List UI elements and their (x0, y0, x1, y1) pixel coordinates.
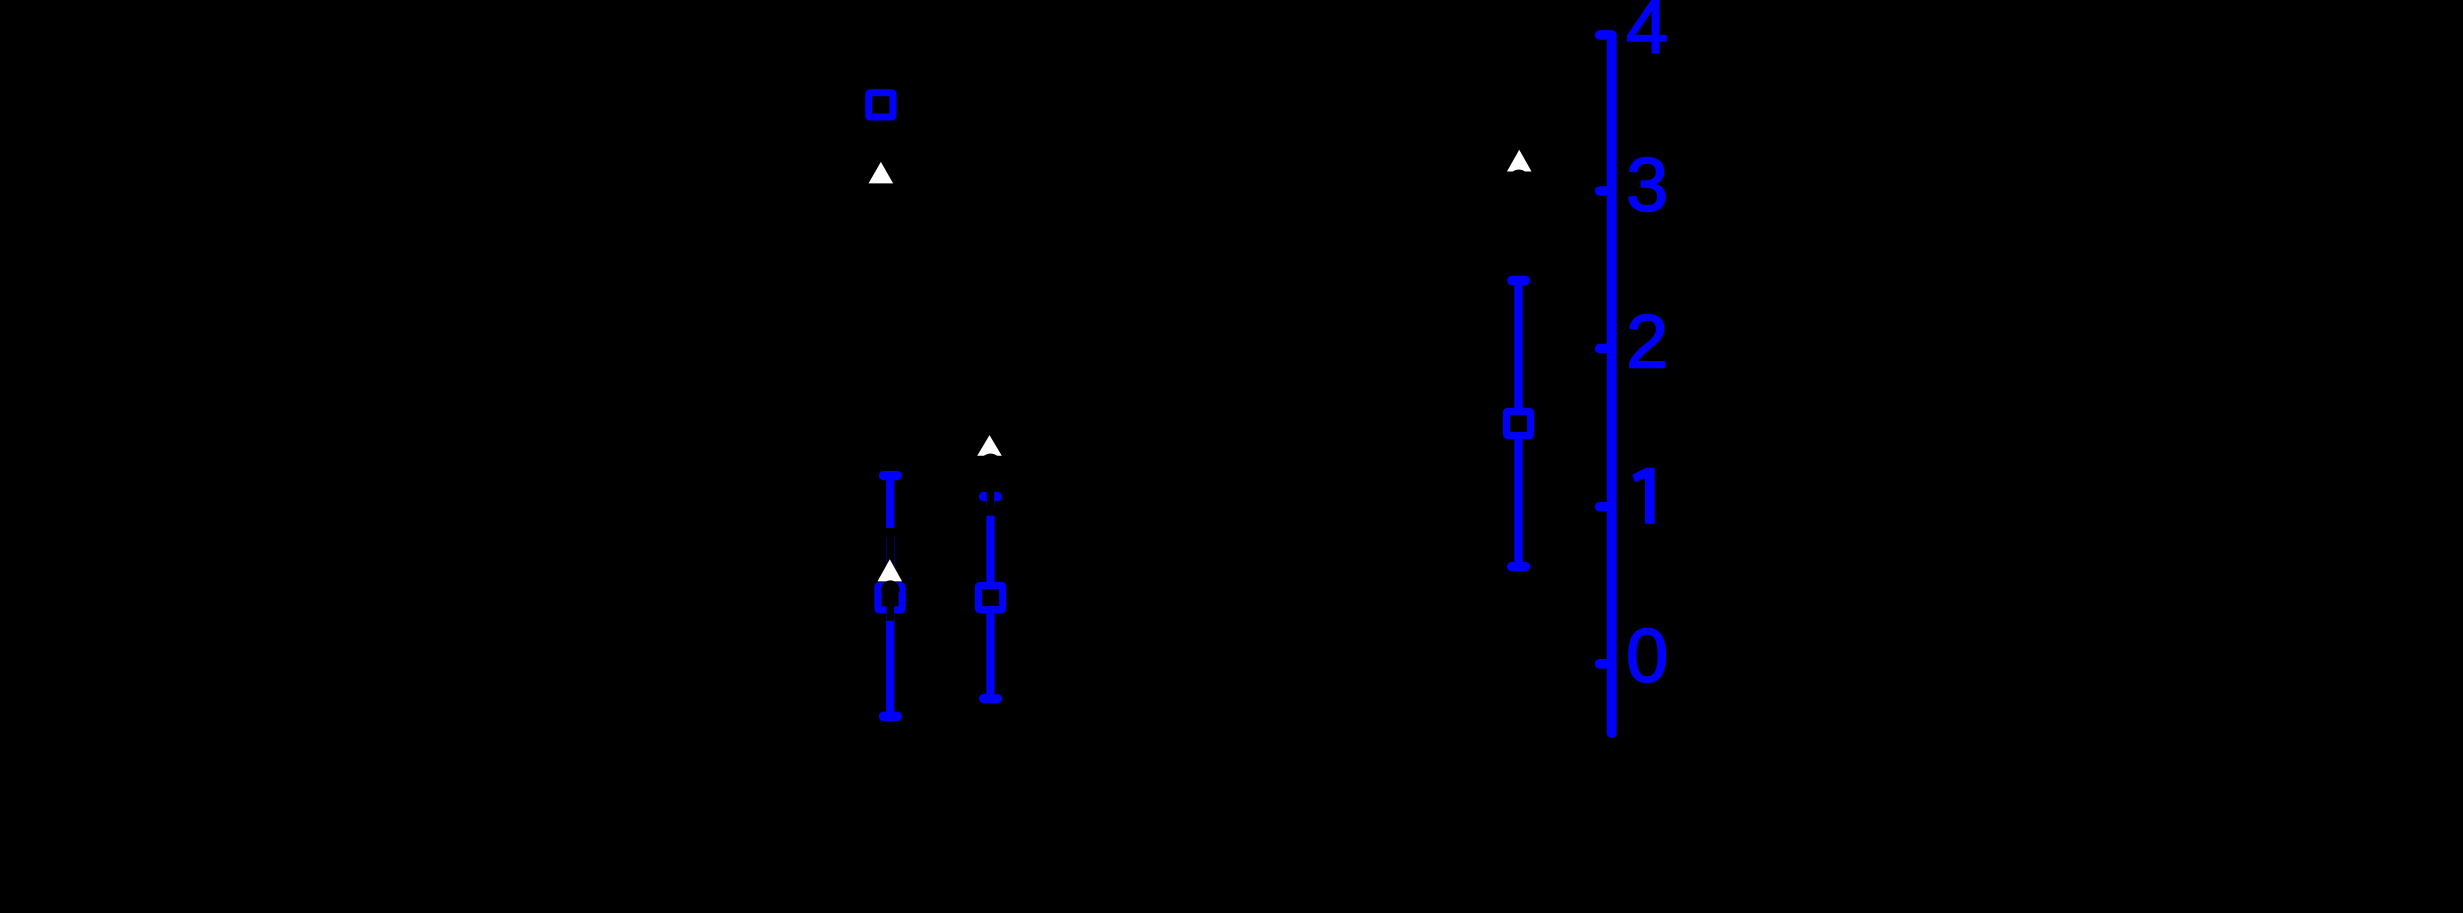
hidden black series bar over col990 (987, 455, 994, 506)
y-axis spine (right side) (1607, 35, 1617, 733)
svg-text:3: 3 (1626, 143, 1668, 228)
error bar line col890 (886, 476, 894, 717)
svg-text:4: 4 (1626, 0, 1668, 70)
error bar top cap col990 (984, 492, 998, 501)
black hole of square S4 (1510, 415, 1527, 432)
axis label 1 (1632, 468, 1654, 524)
hidden black circle marker under T3 col990 (981, 454, 1001, 474)
hidden black series cap over col990 (984, 506, 998, 515)
white triangle marker T4 col1520 (1507, 150, 1532, 172)
axis tick 1 (1600, 502, 1612, 512)
axis tick 0 (1600, 659, 1612, 669)
black hole of square S3 (982, 589, 999, 606)
black hole of square S2 (881, 589, 898, 606)
error bar bottom cap col890 (884, 712, 898, 721)
hidden black series cap over col890 (884, 528, 898, 537)
error bar top cap col890 (884, 471, 898, 480)
hidden black circle marker over T2/S2 col890 (881, 580, 899, 598)
svg-text:2: 2 (1626, 300, 1668, 385)
blue open square marker S4 col1520 (1506, 411, 1530, 435)
white triangle marker T3 col990 (977, 435, 1002, 456)
error bar top cap col1520 (1512, 276, 1526, 285)
blue open square marker S1 (869, 93, 893, 117)
axis tick 4 (1600, 30, 1612, 40)
blue open square marker S2 col890 (878, 586, 902, 610)
error bar bottom cap col990 (984, 694, 998, 703)
white triangle marker T2 col890 (878, 559, 903, 581)
error bar bottom cap col1520 (1512, 562, 1526, 571)
axis tick 2 (1600, 344, 1612, 354)
hidden black series bar over col890 (887, 537, 894, 567)
error bar line col1520 (1514, 280, 1522, 566)
axis tick 3 (1600, 186, 1612, 196)
svg-text:0: 0 (1626, 614, 1668, 699)
hidden black bar through square S2 col890 (887, 596, 894, 621)
blue open square marker S3 col990 (978, 585, 1002, 609)
white triangle marker T1 (869, 162, 894, 184)
error bar line col990 (986, 497, 994, 699)
hidden black circle marker under T4 col1520 (1509, 170, 1529, 190)
